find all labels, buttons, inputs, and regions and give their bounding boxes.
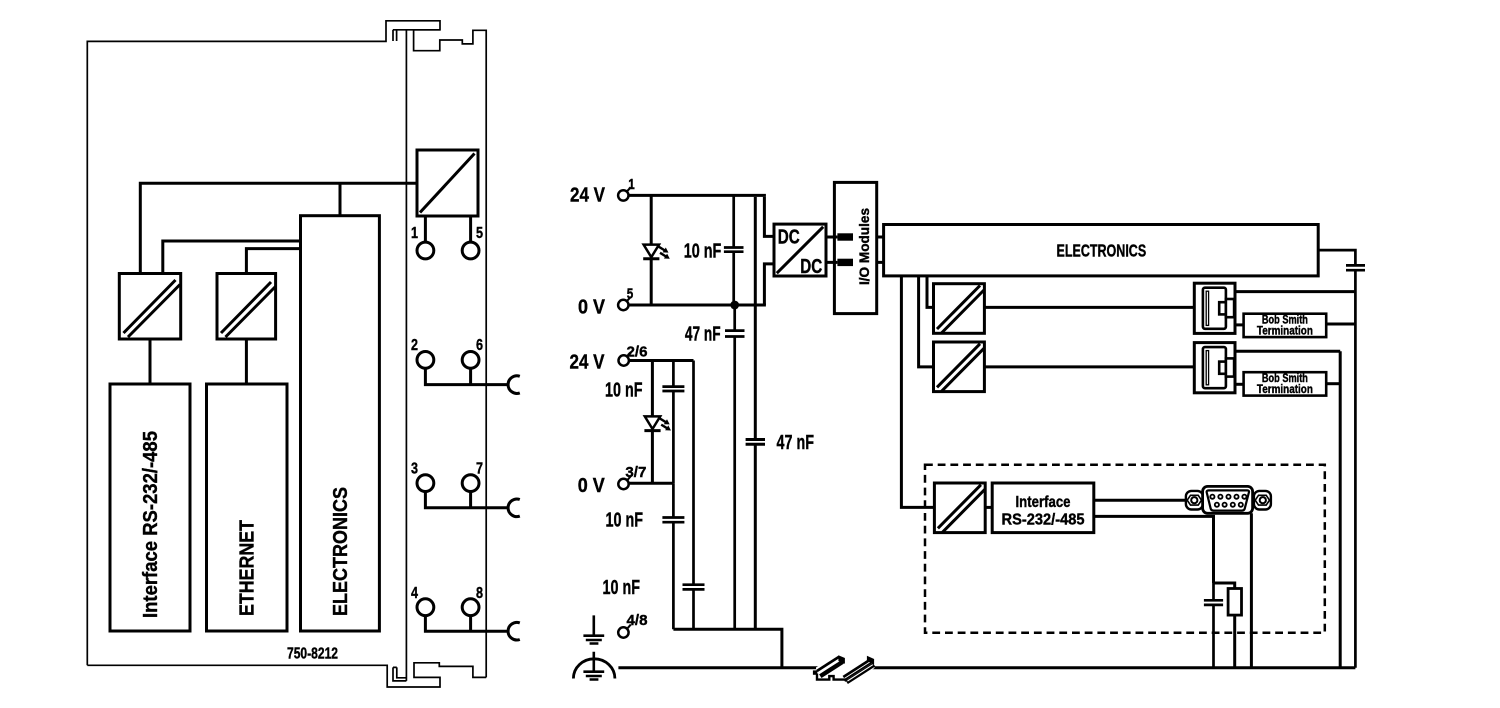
contact 1 [424,216,427,242]
wire interface isolation to electronics [163,241,301,274]
svg-text:DC: DC [778,226,800,248]
contact 4 [417,599,434,616]
wire contacts 2/6 [425,368,508,384]
svg-text:10 nF: 10 nF [605,379,643,402]
wire jack1 to BobSmith1 [1235,323,1244,326]
wire jack1 top to rail [1235,290,1355,293]
svg-text:10 nF: 10 nF [684,240,722,263]
svg-text:Interface RS-232/-485: Interface RS-232/-485 [140,431,162,618]
DC/DC output wires [826,237,837,262]
isolation converter (interface) [119,274,180,340]
svg-text:4/8: 4/8 [627,612,648,629]
wire iso2 to jack2 [984,365,1194,368]
svg-text:0 V: 0 V [578,474,605,497]
resistor [1228,589,1241,616]
svg-text:10 nF: 10 nF [603,576,641,599]
isolation serial [934,483,985,533]
isolation eth1 [934,284,985,334]
isolation eth2 [934,342,985,392]
capacitor 10nF field 3 [683,361,705,630]
svg-text:10 nF: 10 nF [606,509,644,532]
wire electronics to serial isolation [901,276,934,508]
wire 24V system [629,194,766,197]
svg-text:24 V: 24 V [570,350,605,373]
svg-text:3/7: 3/7 [625,464,646,481]
DIN rail clamp [813,653,875,686]
protective earth symbol [583,652,604,680]
wires I/O to electronics [877,237,884,262]
svg-text:47 nF: 47 nF [685,323,721,346]
wire isolation to interface box [149,339,152,384]
junction node 0V/caps [730,301,739,310]
wire isolation to ethernet box [245,339,248,384]
electronics to earth cap [1318,250,1365,668]
capacitor 10nF system [724,195,744,305]
svg-text:24 V: 24 V [570,184,605,207]
svg-text:ETHERNET: ETHERNET [237,520,259,616]
svg-text:8: 8 [476,585,483,602]
wire ethernet isolation to electronics [246,249,300,274]
DC/DC converter U1 [774,224,826,276]
wire to electronics top [339,183,342,215]
isolation converter (ethernet) [217,274,276,340]
RC termination: branch [1214,583,1235,589]
box ETHERNET [207,384,288,631]
field earth bus [673,629,782,668]
LED field [651,361,654,417]
wire interface to RC [1094,516,1214,583]
DB9 shield to earth [1250,513,1253,668]
terminal 5 (0V system) [618,300,628,310]
svg-text:4: 4 [411,585,418,602]
Bob Smith Termination 1 [1244,314,1327,337]
svg-text:I/O Modules: I/O Modules [857,208,872,285]
svg-text:750-8212: 750-8212 [287,645,338,662]
terminal 4/8 [618,627,628,637]
I/O Modules box [834,182,876,313]
capacitor 47nF 0V-earth [725,305,745,629]
svg-text:1: 1 [411,225,418,242]
terminal 2/6 (24V field) [619,355,629,365]
rail 24V to earth cap 47nF [746,197,765,629]
contact 2 [417,352,434,369]
wire contacts 3/7 [425,492,508,508]
rail2 to earth [1339,351,1342,668]
RJ45 jack 1 [1194,283,1235,333]
terminal 3/7 (0V field) [618,479,628,489]
dashed serial interface box [925,465,1325,633]
wire interface to DB9 [1094,499,1187,502]
module housing outline 750-8212 [87,21,486,687]
wire electronics to eth2 isolation [919,276,934,367]
svg-text:ELECTRONICS: ELECTRONICS [1057,241,1147,261]
svg-text:1: 1 [628,176,635,193]
DB9 connector [1186,486,1271,513]
svg-text:0 V: 0 V [578,296,605,319]
svg-text:47 nF: 47 nF [777,431,815,454]
capacitor serial [1204,583,1223,668]
svg-text:6: 6 [476,337,483,354]
wire iso1 to jack1 [984,306,1194,309]
contact 5 [469,216,472,242]
svg-text:Interface: Interface [1016,494,1071,511]
contact 6 [462,352,479,369]
wire 24V field [629,359,693,362]
box ELECTRONICS (module) [301,216,380,631]
functional earth symbol [583,615,604,643]
wire top bus to power box [140,183,417,273]
contact 3 [417,475,434,492]
rail to DC/DC input [764,197,774,237]
capacitor 10nF field 1 [662,361,684,484]
earth rail [618,666,1355,669]
svg-text:5: 5 [627,285,634,302]
wire 0V field [629,482,673,485]
wire BobSmith2 to rail2 [1326,382,1340,385]
box Interface RS-232/-485 [110,384,190,631]
open contact row 3/7 [508,499,520,517]
ELECTRONICS bar [884,225,1319,276]
wire jack2 top to rail2 [1235,350,1340,353]
terminal 1 (24V system) [618,190,628,200]
svg-text:Termination: Termination [1257,324,1313,338]
svg-text:ELECTRONICS: ELECTRONICS [330,487,352,616]
wire electronics to eth1 isolation [927,276,934,308]
svg-text:5: 5 [476,225,483,242]
open contact row 4/8 [508,622,520,640]
wire 0V system [629,304,766,307]
RJ45 jack 2 [1194,343,1235,393]
wire BobSmith1 to rail [1326,323,1355,326]
wire jack2 to BobSmith2 [1235,383,1244,386]
Bob Smith Termination 2 [1244,372,1327,395]
svg-text:7: 7 [476,461,483,478]
LED system [650,195,653,244]
svg-text:RS-232/-485: RS-232/-485 [1002,512,1085,529]
open contact row 2/6 [508,376,520,394]
svg-text:2/6: 2/6 [627,344,648,361]
svg-text:DC: DC [800,256,822,278]
Interface RS-232/-485 box [992,483,1094,533]
contact 8 [462,599,479,616]
connector blobs [837,233,853,240]
wire iso to interface box [985,506,992,509]
svg-text:2: 2 [411,337,418,354]
power supply box with diagonal [417,150,478,216]
capacitor 10nF field 2 [662,483,684,629]
svg-text:3: 3 [411,461,418,478]
contact 7 [462,475,479,492]
svg-text:Termination: Termination [1257,382,1313,396]
wire contacts 4/8 [425,616,508,632]
